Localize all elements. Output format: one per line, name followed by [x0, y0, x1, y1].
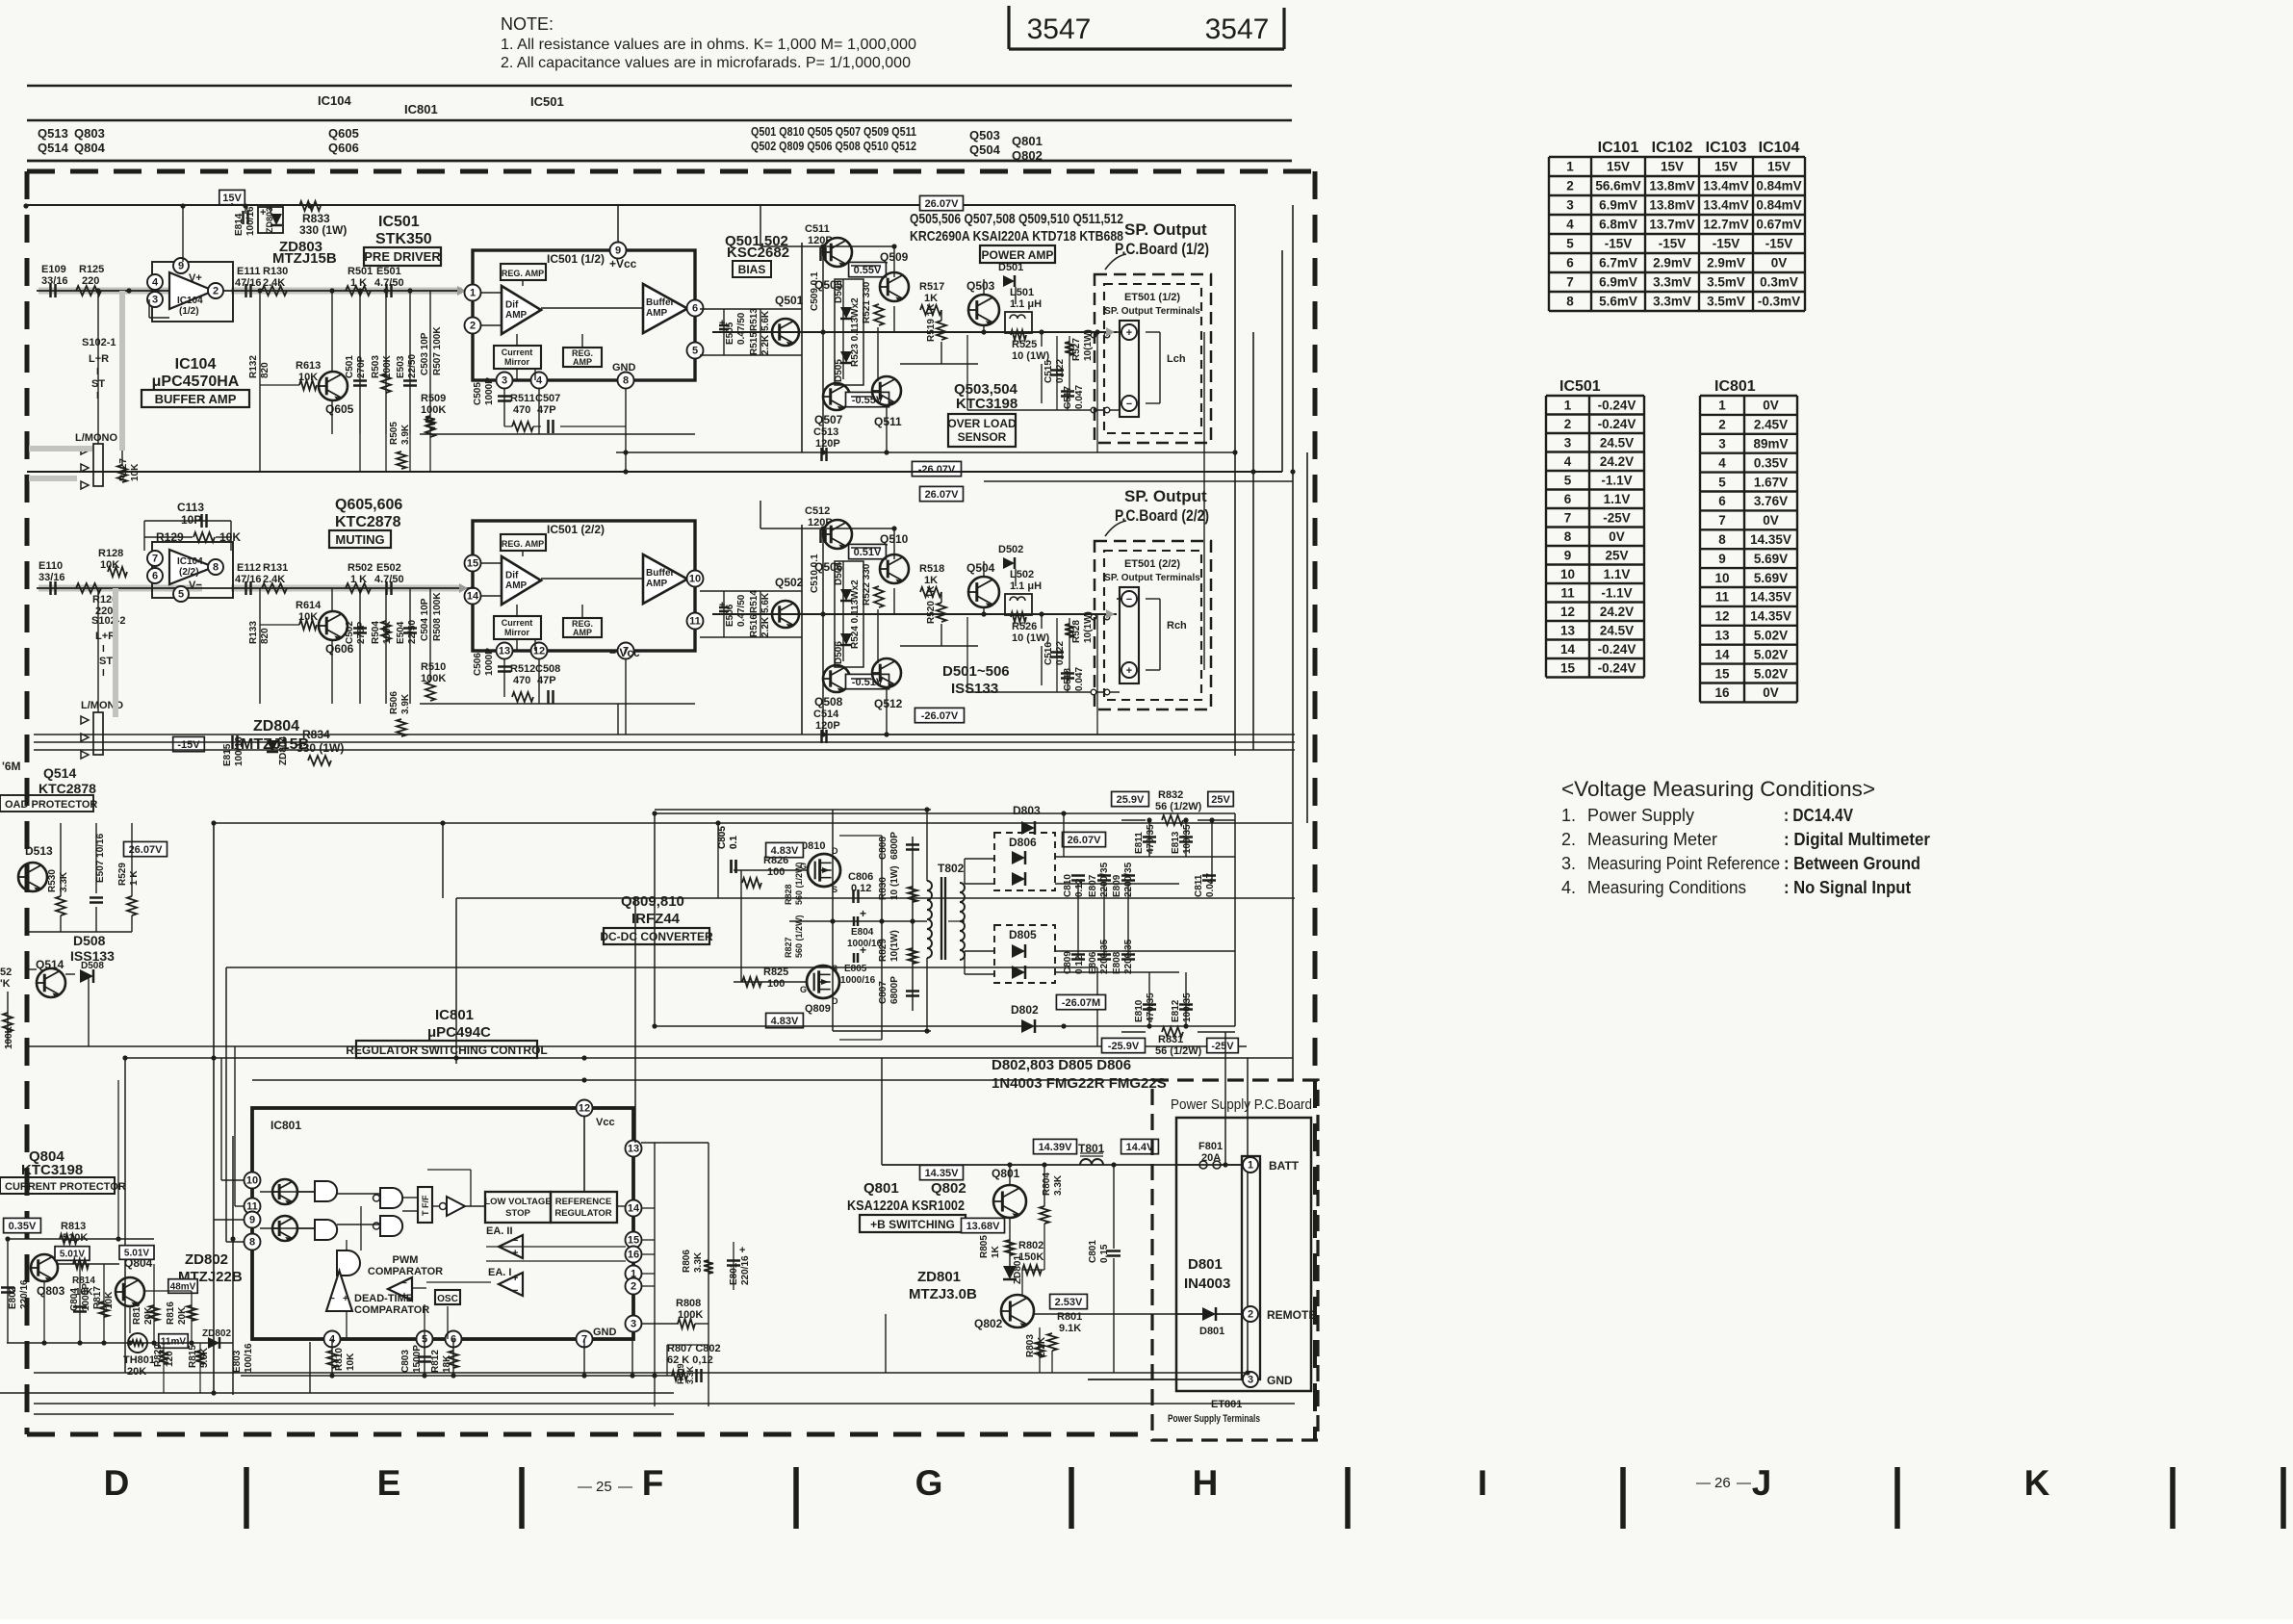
svg-text:AMP: AMP — [573, 628, 592, 637]
svg-text:R529: R529 — [117, 863, 128, 886]
svg-text:2.53V: 2.53V — [1055, 1297, 1083, 1308]
svg-text:D805: D805 — [1009, 928, 1037, 941]
svg-text:3: 3 — [1566, 198, 1574, 213]
svg-text:R133: R133 — [248, 621, 259, 644]
svg-text:C805: C805 — [717, 826, 728, 849]
svg-text:AMP: AMP — [646, 579, 668, 589]
svg-text:Q507: Q507 — [814, 413, 843, 426]
svg-text:1: 1 — [1564, 398, 1572, 412]
svg-text:Rch: Rch — [1167, 620, 1187, 632]
svg-text:Q801: Q801 — [863, 1180, 899, 1197]
svg-text:R506: R506 — [389, 691, 399, 714]
svg-text:820: 820 — [260, 628, 271, 644]
svg-text:V+: V+ — [189, 272, 202, 284]
svg-text:1000P: 1000P — [484, 648, 495, 676]
svg-text:C503 10P: C503 10P — [420, 332, 430, 375]
svg-text:24.2V: 24.2V — [1600, 454, 1634, 469]
svg-text:GND: GND — [593, 1327, 617, 1338]
svg-text:I: I — [102, 668, 105, 679]
svg-text:1: 1 — [1566, 160, 1574, 174]
svg-text:2.9mV: 2.9mV — [1707, 256, 1745, 271]
svg-text:R514: R514 — [749, 590, 760, 613]
svg-text:9: 9 — [178, 261, 184, 272]
svg-text:SP. Output Terminals: SP. Output Terminals — [1104, 306, 1200, 317]
svg-text:Vcc: Vcc — [596, 1117, 615, 1128]
svg-text:T F/F: T F/F — [421, 1195, 430, 1216]
svg-text:2. All capacitance values are: 2. All capacitance values are in microfa… — [501, 55, 911, 71]
svg-text:KTC2878: KTC2878 — [39, 781, 96, 796]
svg-text:T802: T802 — [938, 862, 965, 875]
svg-text:0.3mV: 0.3mV — [1760, 275, 1798, 290]
svg-text:11: 11 — [689, 616, 701, 628]
svg-text:220: 220 — [82, 275, 99, 287]
svg-text:SENSOR: SENSOR — [958, 430, 1007, 444]
svg-text:10P: 10P — [181, 513, 201, 527]
svg-text:D502: D502 — [998, 544, 1023, 555]
svg-text:33/16: 33/16 — [39, 572, 65, 583]
svg-text:PRE DRIVER: PRE DRIVER — [364, 249, 441, 264]
svg-text:+: + — [860, 907, 866, 920]
svg-text:14: 14 — [1560, 642, 1576, 657]
svg-text:5: 5 — [692, 346, 698, 357]
svg-text:4: 4 — [1566, 218, 1574, 232]
svg-text:P.C.Board (1/2): P.C.Board (1/2) — [1115, 240, 1209, 258]
svg-text:(2/2): (2/2) — [179, 567, 199, 578]
svg-text:14.39V: 14.39V — [1039, 1142, 1073, 1153]
svg-text:REFERENCE: REFERENCE — [555, 1197, 612, 1207]
svg-text:C501: C501 — [345, 355, 355, 378]
svg-text:1.1V: 1.1V — [1604, 567, 1631, 581]
svg-text:R502: R502 — [348, 562, 373, 574]
svg-text:-26.07M: -26.07M — [1062, 997, 1100, 1009]
svg-text:REG. AMP: REG. AMP — [502, 269, 544, 278]
svg-text:3.3mV: 3.3mV — [1653, 295, 1691, 309]
svg-text:ST: ST — [99, 656, 113, 667]
svg-text:25V: 25V — [1605, 548, 1628, 562]
svg-text:5.02V: 5.02V — [1754, 666, 1788, 681]
svg-text:14: 14 — [467, 591, 479, 603]
svg-text:0.12: 0.12 — [1074, 955, 1085, 974]
svg-text:POWER AMP: POWER AMP — [982, 248, 1054, 262]
svg-text:R518: R518 — [919, 563, 944, 575]
svg-text:'K: 'K — [0, 978, 11, 990]
svg-text:DEAD-TIME: DEAD-TIME — [354, 1293, 413, 1304]
svg-text:-15V: -15V — [1659, 237, 1687, 251]
svg-text:0.047: 0.047 — [1074, 667, 1085, 691]
svg-text:1.1 μH: 1.1 μH — [1010, 298, 1042, 310]
svg-text:IC104: IC104 — [177, 296, 203, 306]
svg-text:6: 6 — [1564, 492, 1572, 506]
svg-text:IC501 (1/2): IC501 (1/2) — [547, 252, 605, 266]
svg-text:R614: R614 — [296, 600, 322, 611]
svg-text:26.07V: 26.07V — [129, 844, 164, 856]
svg-text:6800P: 6800P — [889, 832, 900, 860]
svg-text:Q501 Q810 Q505 Q507 Q509 Q511: Q501 Q810 Q505 Q507 Q509 Q511 — [751, 124, 916, 139]
svg-text:E804: E804 — [851, 927, 874, 938]
svg-text:−: − — [512, 1235, 518, 1247]
svg-text:14.35V: 14.35V — [1750, 590, 1791, 605]
svg-text:R613: R613 — [296, 360, 321, 372]
svg-text:0.35V: 0.35V — [9, 1221, 37, 1232]
svg-text:R828: R828 — [784, 884, 793, 905]
svg-text:56 (1/2W): 56 (1/2W) — [1155, 1045, 1202, 1057]
svg-text:+Vcc: +Vcc — [609, 257, 637, 271]
svg-text:OAD PROTECTOR: OAD PROTECTOR — [5, 799, 97, 811]
svg-text:R501: R501 — [348, 266, 373, 277]
svg-text:KTC2878: KTC2878 — [335, 514, 401, 530]
svg-text:Q512: Q512 — [874, 697, 903, 710]
svg-text:1.67V: 1.67V — [1754, 475, 1788, 489]
svg-text:CURRENT PROTECTOR: CURRENT PROTECTOR — [5, 1181, 126, 1193]
svg-text:4.: 4. — [1561, 878, 1576, 897]
svg-text:220/16: 220/16 — [740, 1255, 751, 1285]
svg-text:0.047: 0.047 — [1074, 385, 1085, 409]
svg-text:270P: 270P — [356, 355, 367, 378]
svg-text:KSA1220A KSR1002: KSA1220A KSR1002 — [847, 1198, 965, 1214]
svg-text:-25.9V: -25.9V — [1108, 1041, 1140, 1052]
svg-text:KTC3198: KTC3198 — [956, 396, 1018, 412]
svg-text:3547: 3547 — [1027, 13, 1092, 45]
svg-text:15: 15 — [1714, 666, 1730, 681]
svg-text:7: 7 — [1718, 513, 1726, 528]
svg-text:E810: E810 — [1134, 999, 1145, 1022]
svg-text:24.5V: 24.5V — [1600, 435, 1634, 450]
svg-text:Q503: Q503 — [966, 279, 995, 293]
svg-text:R829: R829 — [878, 939, 889, 962]
svg-text:C516: C516 — [1043, 642, 1054, 665]
svg-text:13.8mV: 13.8mV — [1649, 179, 1694, 193]
svg-text:Current: Current — [502, 618, 533, 628]
svg-text:11: 11 — [1715, 590, 1730, 605]
svg-text:IC104: IC104 — [318, 93, 351, 108]
svg-text:DC-DC CONVERTER: DC-DC CONVERTER — [600, 930, 713, 943]
svg-text:R832: R832 — [1158, 789, 1183, 801]
svg-text:PWM: PWM — [393, 1254, 419, 1266]
svg-text:2.2K: 2.2K — [760, 616, 771, 637]
svg-text:—: — — [618, 1479, 632, 1495]
svg-text:IC103: IC103 — [1706, 140, 1747, 156]
svg-text:-26.07V: -26.07V — [921, 710, 959, 722]
svg-text:0V: 0V — [1609, 529, 1625, 544]
svg-text:5: 5 — [1566, 237, 1574, 251]
svg-text:R817: R817 — [92, 1286, 103, 1309]
svg-text:Power Supply P.C.Board: Power Supply P.C.Board — [1171, 1096, 1312, 1113]
svg-text:100: 100 — [767, 978, 785, 990]
svg-text:2: 2 — [213, 286, 219, 297]
svg-text:R804: R804 — [1042, 1173, 1052, 1196]
svg-text:12: 12 — [579, 1103, 590, 1115]
svg-text:15V: 15V — [1607, 160, 1630, 174]
svg-text:SP. Output: SP. Output — [1124, 487, 1207, 505]
svg-text:C807: C807 — [878, 981, 889, 1004]
svg-text:REG. AMP: REG. AMP — [502, 539, 544, 549]
svg-text:SP. Output Terminals: SP. Output Terminals — [1104, 573, 1200, 583]
svg-text:-0.24V: -0.24V — [1598, 417, 1636, 431]
svg-text:10: 10 — [689, 574, 701, 585]
svg-text:ET501 (2/2): ET501 (2/2) — [1124, 558, 1180, 570]
svg-text:15: 15 — [628, 1235, 639, 1247]
svg-text:Q803: Q803 — [37, 1284, 65, 1298]
svg-text:IC801: IC801 — [435, 1007, 474, 1023]
svg-text:—: — — [1737, 1475, 1751, 1491]
svg-text:11mV: 11mV — [161, 1337, 186, 1348]
svg-text:E503: E503 — [396, 355, 406, 378]
svg-text:5.6K: 5.6K — [760, 310, 771, 331]
svg-text:+: + — [739, 1245, 745, 1256]
svg-text:R801: R801 — [1057, 1311, 1082, 1323]
svg-text:47P: 47P — [537, 675, 556, 686]
svg-text:C801: C801 — [1088, 1240, 1098, 1263]
svg-text:P.C.Board (2/2): P.C.Board (2/2) — [1115, 506, 1209, 525]
svg-text:5: 5 — [178, 589, 184, 601]
svg-text:R508 100K: R508 100K — [432, 592, 443, 641]
svg-text:Q605: Q605 — [328, 126, 359, 141]
svg-text:10K: 10K — [346, 1353, 356, 1371]
svg-text:15V: 15V — [1661, 160, 1684, 174]
svg-text:R806: R806 — [682, 1250, 692, 1273]
svg-text:R813: R813 — [61, 1221, 86, 1232]
svg-text:3.3K: 3.3K — [685, 1365, 695, 1384]
svg-text:9: 9 — [1718, 552, 1726, 566]
svg-text:IC102: IC102 — [1652, 140, 1693, 156]
svg-text:C504 10P: C504 10P — [420, 598, 430, 641]
svg-text:COMPARATOR: COMPARATOR — [368, 1266, 443, 1277]
svg-text:+: + — [512, 1273, 518, 1284]
svg-text:26.07V: 26.07V — [925, 198, 960, 210]
svg-text:R510: R510 — [421, 661, 446, 673]
svg-text:: Between Ground: : Between Ground — [1784, 854, 1920, 873]
svg-text:μPC494C: μPC494C — [427, 1024, 491, 1041]
svg-text:Power Supply Terminals: Power Supply Terminals — [1168, 1413, 1260, 1425]
svg-text:IC104: IC104 — [1759, 140, 1800, 156]
svg-text:ZD804: ZD804 — [253, 718, 299, 735]
svg-text:0.47/50: 0.47/50 — [736, 312, 747, 345]
svg-text:R826: R826 — [763, 855, 788, 866]
svg-text:47/16: 47/16 — [235, 574, 262, 585]
svg-text:-0.24V: -0.24V — [1598, 398, 1636, 412]
svg-text:R802: R802 — [1018, 1240, 1043, 1251]
svg-text:H: H — [1193, 1463, 1219, 1503]
svg-text:7: 7 — [1566, 275, 1574, 290]
svg-text:− Vcc: − Vcc — [609, 646, 640, 659]
svg-text:EA. I: EA. I — [488, 1267, 511, 1278]
svg-text:IC104: IC104 — [175, 356, 217, 373]
svg-text:10: 10 — [246, 1175, 258, 1187]
svg-text:C514: C514 — [813, 709, 839, 720]
svg-text:BATT: BATT — [1269, 1159, 1300, 1173]
svg-text:-15V: -15V — [177, 739, 200, 751]
svg-text:-0.24V: -0.24V — [1598, 660, 1636, 675]
svg-text:R509: R509 — [421, 393, 446, 404]
svg-text:14.35V: 14.35V — [1750, 609, 1791, 624]
svg-text:4.7/50: 4.7/50 — [374, 277, 404, 289]
svg-text:LOW VOLTAGE: LOW VOLTAGE — [484, 1197, 551, 1207]
svg-text:13: 13 — [1560, 623, 1576, 637]
svg-text:5: 5 — [1718, 475, 1726, 489]
svg-text:R517: R517 — [919, 281, 944, 293]
svg-text:10(1W): 10(1W) — [889, 930, 900, 962]
svg-text:D802,803 D805 D806: D802,803 D805 D806 — [992, 1057, 1131, 1073]
svg-text:Q514: Q514 — [38, 141, 69, 155]
svg-text:R516: R516 — [749, 614, 760, 637]
svg-text:C810: C810 — [1063, 874, 1073, 897]
svg-text:2: 2 — [470, 321, 476, 332]
svg-text:26: 26 — [1714, 1475, 1731, 1491]
svg-text:5.02V: 5.02V — [1754, 647, 1788, 661]
svg-text:25: 25 — [596, 1479, 612, 1495]
svg-text:Q605,606: Q605,606 — [335, 497, 402, 513]
svg-text:3.5mV: 3.5mV — [1707, 275, 1745, 290]
svg-text:3: 3 — [1248, 1375, 1253, 1386]
svg-text:C515: C515 — [1043, 360, 1054, 383]
svg-text:BUFFER AMP: BUFFER AMP — [155, 392, 237, 406]
svg-text:-25V: -25V — [1603, 510, 1631, 525]
svg-text:7: 7 — [1564, 510, 1572, 525]
svg-text:100/16: 100/16 — [234, 736, 245, 766]
svg-text:R825: R825 — [763, 967, 788, 978]
svg-text:D803: D803 — [1013, 804, 1041, 817]
svg-text:E806: E806 — [1088, 951, 1098, 974]
svg-text:6.7mV: 6.7mV — [1599, 256, 1637, 271]
svg-text:26.07V: 26.07V — [925, 489, 960, 501]
svg-text:IC501: IC501 — [378, 214, 420, 230]
svg-text:-15V: -15V — [1765, 237, 1793, 251]
svg-text:ZD802: ZD802 — [202, 1328, 231, 1339]
svg-text:E805: E805 — [844, 964, 867, 974]
svg-text:E111: E111 — [237, 266, 260, 277]
svg-text:I: I — [1478, 1463, 1487, 1503]
svg-text:15V: 15V — [1714, 160, 1738, 174]
svg-text:13.4mV: 13.4mV — [1703, 179, 1748, 193]
svg-text:13.4mV: 13.4mV — [1703, 198, 1748, 213]
svg-text:Mirror: Mirror — [504, 357, 530, 367]
svg-text:62 K 0,12: 62 K 0,12 — [667, 1354, 713, 1366]
svg-text:1.1V: 1.1V — [1604, 492, 1631, 506]
svg-text:56 (1/2W): 56 (1/2W) — [1155, 801, 1202, 812]
svg-text:1 K: 1 K — [129, 870, 140, 886]
svg-text:R515: R515 — [749, 332, 760, 355]
svg-text:E807: E807 — [1088, 874, 1098, 897]
svg-text:8: 8 — [1564, 529, 1572, 544]
svg-text:D: D — [104, 1463, 130, 1503]
svg-text:R831: R831 — [1158, 1034, 1183, 1045]
svg-text:IC501 (2/2): IC501 (2/2) — [547, 523, 605, 536]
svg-text:470: 470 — [513, 675, 530, 686]
svg-text:0V: 0V — [1771, 256, 1788, 271]
svg-text:5.01V: 5.01V — [60, 1250, 85, 1260]
svg-text:-0.3mV: -0.3mV — [1758, 295, 1800, 309]
svg-text:13: 13 — [1714, 628, 1730, 642]
svg-text:-1.1V: -1.1V — [1601, 473, 1632, 487]
svg-text:-26.07V: -26.07V — [918, 464, 956, 476]
svg-text:SP. Output: SP. Output — [1124, 220, 1207, 239]
svg-text:Buffer: Buffer — [646, 297, 675, 308]
svg-text:0.67mV: 0.67mV — [1756, 218, 1801, 232]
svg-text:MUTING: MUTING — [335, 532, 384, 547]
svg-text:−: − — [401, 1278, 407, 1289]
svg-text:Measuring Conditions: Measuring Conditions — [1587, 878, 1746, 897]
svg-text:C803: C803 — [400, 1350, 411, 1373]
svg-text:Q502: Q502 — [775, 576, 804, 589]
svg-text:G: G — [915, 1463, 943, 1503]
svg-text:6.9mV: 6.9mV — [1599, 198, 1637, 213]
svg-text:Current: Current — [502, 348, 533, 357]
svg-text:AMP: AMP — [573, 357, 592, 367]
svg-text:C513: C513 — [813, 426, 838, 438]
svg-text:0.1: 0.1 — [729, 836, 739, 849]
svg-text:C509 0.1: C509 0.1 — [810, 271, 820, 311]
svg-text:470/35: 470/35 — [1146, 824, 1156, 854]
svg-text:STOP: STOP — [505, 1208, 530, 1219]
svg-text:2: 2 — [1564, 417, 1572, 431]
svg-text:6800P: 6800P — [889, 976, 900, 1004]
svg-text:Q514: Q514 — [43, 765, 76, 781]
svg-text:GND: GND — [1267, 1374, 1293, 1387]
svg-text:1: 1 — [1248, 1160, 1253, 1172]
svg-text:1000P: 1000P — [484, 377, 495, 405]
svg-text:Mirror: Mirror — [504, 628, 530, 637]
svg-text:4: 4 — [152, 277, 159, 289]
svg-text:—: — — [1696, 1475, 1711, 1491]
svg-text:1K: 1K — [991, 1245, 1001, 1258]
svg-text:2: 2 — [1718, 418, 1726, 432]
svg-text:GND: GND — [612, 362, 636, 374]
svg-text:0V: 0V — [1763, 513, 1779, 528]
svg-text:6.8mV: 6.8mV — [1599, 218, 1637, 232]
svg-text:3.: 3. — [1561, 854, 1576, 873]
svg-text:E802: E802 — [8, 1286, 18, 1309]
svg-text:S102-2: S102-2 — [91, 615, 125, 627]
svg-text:ZD802: ZD802 — [185, 1251, 228, 1268]
svg-text:2.45V: 2.45V — [1754, 418, 1788, 432]
svg-text:Q508: Q508 — [814, 695, 843, 709]
svg-text:Buffer: Buffer — [646, 568, 675, 579]
svg-text:D513: D513 — [25, 844, 53, 858]
svg-text:K: K — [2024, 1463, 2050, 1503]
svg-text:12: 12 — [1714, 609, 1729, 624]
svg-text:IC101: IC101 — [1598, 140, 1639, 156]
svg-text:AMP: AMP — [505, 580, 528, 591]
svg-text:0.84mV: 0.84mV — [1756, 198, 1801, 213]
svg-text:330 (1W): 330 (1W) — [299, 223, 347, 237]
svg-text:25.9V: 25.9V — [1117, 794, 1145, 806]
svg-text:STK350: STK350 — [375, 231, 432, 247]
svg-text:100/16: 100/16 — [244, 1343, 254, 1373]
svg-text:-15V: -15V — [1605, 237, 1633, 251]
svg-text:R132: R132 — [248, 355, 259, 378]
svg-text:16: 16 — [628, 1250, 639, 1261]
svg-text:−: − — [329, 1294, 335, 1304]
svg-text:IC801: IC801 — [404, 102, 438, 116]
svg-text:24.2V: 24.2V — [1600, 605, 1634, 619]
svg-text:1. All resistance values are i: 1. All resistance values are in ohms. K=… — [501, 37, 916, 53]
svg-text:C806: C806 — [848, 871, 873, 883]
svg-text:820: 820 — [260, 362, 271, 378]
svg-text:R131: R131 — [263, 562, 288, 574]
svg-text:3: 3 — [502, 375, 507, 387]
svg-text:Q511: Q511 — [874, 415, 902, 428]
svg-text:+: + — [343, 1294, 348, 1304]
svg-text:Dif: Dif — [505, 571, 519, 581]
svg-text:(1/2): (1/2) — [179, 306, 199, 317]
svg-text:100K: 100K — [421, 404, 446, 416]
svg-text:3.5mV: 3.5mV — [1707, 295, 1745, 309]
svg-text:KTC3198: KTC3198 — [21, 1162, 83, 1178]
svg-text:1000/16: 1000/16 — [840, 975, 876, 986]
svg-text:25V: 25V — [1211, 794, 1230, 806]
svg-text:Q801: Q801 — [992, 1167, 1020, 1180]
svg-text:<Voltage Measuring Condition: <Voltage Measuring Conditions> — [1561, 777, 1875, 801]
